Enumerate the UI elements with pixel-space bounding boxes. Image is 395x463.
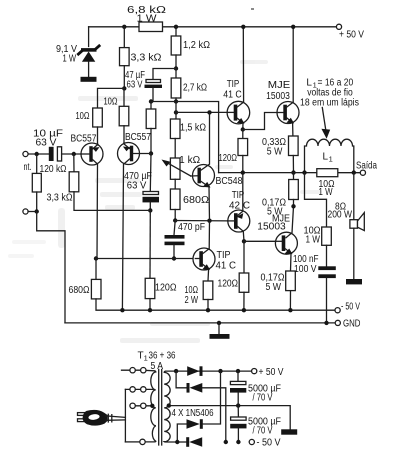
node 1,2k/2,7k junction <box>174 66 178 70</box>
svg-text:2 W: 2 W <box>185 295 199 306</box>
label TIP42C <box>229 190 250 212</box>
transistor Q3 BC548 <box>191 112 215 220</box>
label 10 ohm Q1 <box>76 111 90 122</box>
svg-text:1: 1 <box>329 154 333 163</box>
capacitor 47uF 63V <box>145 69 177 102</box>
label +50V top <box>339 30 364 41</box>
svg-text:15003: 15003 <box>257 221 286 232</box>
diode D1 <box>187 366 202 376</box>
label 100nF 100V <box>293 254 319 275</box>
svg-text:TIP: TIP <box>217 250 231 261</box>
wire GND rail <box>65 321 338 325</box>
transistor Q1 BC557 <box>81 143 103 259</box>
svg-text:18 em um lápis: 18 em um lápis <box>300 97 359 108</box>
wire mains bus <box>124 389 126 442</box>
resistor 1,5k <box>170 102 180 159</box>
resistor 1,2k <box>171 36 181 69</box>
wire zobel takeoff <box>305 173 327 227</box>
svg-text:120Ω: 120Ω <box>155 283 177 294</box>
transformer T1 core <box>159 370 162 446</box>
svg-text:63 V: 63 V <box>127 80 143 91</box>
svg-text:TIP: TIP <box>232 190 245 201</box>
label 120 ohm left <box>155 283 177 294</box>
resistor 2,7k <box>171 69 181 102</box>
primary tap row2 <box>125 387 154 392</box>
label 10 1W damper <box>319 179 335 198</box>
label 5000uF lower <box>248 416 281 436</box>
label 5000uF upper <box>248 383 281 403</box>
svg-text:5 W: 5 W <box>266 282 282 293</box>
label BC557 Q2 <box>125 132 151 143</box>
label 0,17 lower <box>261 273 285 293</box>
terminal -50V amp <box>335 308 340 313</box>
svg-text:+ 50 V: + 50 V <box>339 30 364 41</box>
resistor 680 upper <box>170 179 180 220</box>
wire D3 to +50 rail <box>203 371 221 424</box>
svg-text:100 V: 100 V <box>294 264 317 275</box>
svg-text:nt.: nt. <box>24 162 32 173</box>
svg-text:1 W: 1 W <box>137 14 158 25</box>
svg-text:15003: 15003 <box>266 91 290 102</box>
label 3,3k input <box>47 192 73 203</box>
wire -50 row <box>175 440 240 444</box>
label -50V amp <box>341 301 360 312</box>
transistor Q6 TIP42C driver bottom <box>228 173 250 242</box>
svg-text:TIP: TIP <box>227 79 240 90</box>
svg-text:1 W: 1 W <box>306 234 321 245</box>
label 1k <box>179 155 201 166</box>
label 0,17 upper <box>262 197 286 217</box>
wire A-node column <box>176 371 186 388</box>
resistor 3,3k upper <box>120 48 130 89</box>
label Ent <box>24 162 32 173</box>
label T1 36+36 <box>138 351 176 363</box>
svg-text:3,3 kΩ: 3,3 kΩ <box>47 192 73 203</box>
label 47uF 63V <box>125 70 145 91</box>
label 4x1N5406 <box>172 408 214 419</box>
svg-text:1,2 kΩ: 1,2 kΩ <box>183 40 210 51</box>
node 680/470pF junction <box>173 218 228 223</box>
stray mark top right <box>251 8 254 10</box>
svg-text:- 50 V: - 50 V <box>257 438 281 449</box>
wire top supply rail <box>89 26 339 28</box>
label TIP41C bottom <box>216 250 237 272</box>
wire output rail <box>219 170 363 174</box>
label 1,5k <box>180 122 206 133</box>
label 10 ohm Q2 <box>104 97 118 108</box>
resistor 0,17 5W lower <box>286 271 296 312</box>
transistor Q7 TIP41C output low driver <box>193 221 215 281</box>
svg-text:36 + 36: 36 + 36 <box>149 351 176 362</box>
label TIP41C top <box>223 79 242 101</box>
node emitters common <box>98 86 127 108</box>
resistor 120 driver top <box>238 130 248 173</box>
svg-text:680Ω: 680Ω <box>183 195 210 206</box>
label 10 2W <box>185 285 199 306</box>
capacitor 5000uF upper <box>230 371 246 406</box>
resistor 10 1W across L1 <box>317 169 338 177</box>
diode D4 <box>186 437 202 447</box>
svg-text:/ 70 V: / 70 V <box>253 425 273 436</box>
transistor Q4 TIP41C driver top <box>227 27 250 130</box>
wire secondary center tap rail <box>167 403 291 429</box>
node TIP41 collector rail <box>241 25 245 29</box>
svg-text:MJE: MJE <box>268 80 291 91</box>
label 10uF 63V <box>33 129 63 149</box>
svg-text:1 kΩ: 1 kΩ <box>179 155 201 166</box>
label 470uF 63V <box>124 171 152 192</box>
svg-text:L: L <box>323 151 329 162</box>
ground bar below speaker <box>346 279 362 284</box>
svg-text:+ 50 V: + 50 V <box>259 367 284 378</box>
svg-text:1: 1 <box>144 354 148 363</box>
node 470uF bottom <box>148 208 152 212</box>
resistor 6,8k 1W horizontal in rail <box>139 22 163 32</box>
svg-text:- 50 V: - 50 V <box>341 301 360 312</box>
label 470pF <box>178 222 205 233</box>
node rail to 1,2k <box>174 25 178 36</box>
svg-text:GND: GND <box>343 319 361 330</box>
terminal -50V PSU <box>249 439 254 444</box>
label BC548 <box>216 176 243 187</box>
transistor Q2 BC557 mirrored <box>118 143 152 311</box>
label Saida <box>356 160 377 171</box>
svg-text:63 V: 63 V <box>127 180 147 191</box>
resistor 10 1W zobel <box>322 227 332 266</box>
label +50V PSU <box>259 367 284 378</box>
label -50V PSU <box>257 438 281 449</box>
resistor 0,33 5W <box>289 136 299 173</box>
label 680 upper <box>183 195 210 206</box>
label 0,33 5W <box>262 137 286 157</box>
AC plug <box>78 410 126 426</box>
svg-text:63 V: 63 V <box>36 137 57 148</box>
svg-text:1,5 kΩ: 1,5 kΩ <box>180 122 206 133</box>
svg-text:/ 70 V: / 70 V <box>253 392 273 403</box>
transformer secondary winding <box>164 371 177 442</box>
annotation L1 text <box>300 78 359 109</box>
resistor 0,17 5W upper <box>289 170 299 208</box>
diode D3 <box>177 419 203 442</box>
resistor 10 ohm Q2 emitter <box>119 88 129 142</box>
svg-text:1 W: 1 W <box>319 187 333 198</box>
svg-text:BC557: BC557 <box>71 133 97 144</box>
svg-text:680Ω: 680Ω <box>69 285 90 296</box>
label 5A <box>151 361 164 372</box>
svg-text:2,7 kΩ: 2,7 kΩ <box>183 82 207 93</box>
resistor 120k input <box>32 154 41 212</box>
ground bar PSU <box>281 429 297 434</box>
terminal GND <box>335 320 340 325</box>
svg-text:5 W: 5 W <box>267 206 283 217</box>
inductor L1 <box>302 139 356 175</box>
svg-text:5 W: 5 W <box>267 146 283 157</box>
resistor 680 lower <box>91 259 337 311</box>
capacitor 5000uF lower <box>230 406 246 442</box>
label 2,7k <box>183 82 207 93</box>
svg-text:120Ω: 120Ω <box>218 279 239 290</box>
label 120 driver bottom <box>218 279 239 290</box>
wire speaker drop <box>353 173 355 220</box>
node MJE1 collector rail <box>291 25 295 29</box>
ground bar center stub <box>210 323 230 339</box>
zener diode D1 9,1V <box>77 45 100 77</box>
node -50 rail dots <box>120 308 246 312</box>
capacitor 10uF 63V input <box>49 147 81 161</box>
transformer primary winding <box>145 370 156 442</box>
svg-text:BC557: BC557 <box>125 132 151 143</box>
label MJE15003 top <box>266 80 290 102</box>
wire VAS base y112 <box>174 110 227 114</box>
label L1 <box>323 151 333 163</box>
svg-text:10Ω: 10Ω <box>76 111 90 122</box>
resistor 120 ohm to -50 <box>145 210 155 310</box>
wire feedback node horizontal <box>149 99 219 172</box>
svg-text:200 W: 200 W <box>328 210 353 221</box>
wire D2 to -50 rail <box>202 388 226 442</box>
svg-text:3,3 kΩ: 3,3 kΩ <box>131 53 163 64</box>
label 9,1V 1W <box>56 44 77 65</box>
terminal +50V PSU <box>252 369 257 374</box>
label MJE15003 bottom <box>257 213 290 232</box>
label BC557 Q1 <box>71 133 97 144</box>
label 120k <box>40 164 67 175</box>
svg-text:42 C: 42 C <box>229 201 250 212</box>
capacitor 100nF 100V zobel <box>318 266 336 323</box>
svg-text:120Ω: 120Ω <box>219 153 238 164</box>
node top rail / zener drop <box>88 27 90 47</box>
svg-text:4 X 1N5406: 4 X 1N5406 <box>172 408 214 419</box>
svg-text:1 W: 1 W <box>63 54 77 65</box>
label 6,8k <box>127 5 167 25</box>
resistor 3,3k input <box>69 154 150 210</box>
node rail to 3,3k <box>122 25 126 48</box>
resistor 10 2W <box>203 281 213 312</box>
node TIP42 collector / wire to MJE2 base <box>242 239 276 243</box>
svg-text:BC548: BC548 <box>216 176 243 187</box>
annotation arrow to L1 <box>321 108 330 139</box>
potentiometer 1k <box>162 158 191 179</box>
label 8ohm 200W <box>328 201 353 220</box>
wire PSU +50 rail <box>174 369 254 373</box>
resistor feedback to Q2 base <box>146 102 156 154</box>
capacitor 470pF <box>165 221 185 259</box>
ground bar below zener <box>81 77 97 82</box>
terminal +50V top <box>336 24 341 29</box>
label 1,2k <box>183 40 210 51</box>
svg-text:41 C: 41 C <box>216 261 237 272</box>
label 3,3k upper <box>131 53 163 64</box>
label 10 1W zobel <box>304 226 321 246</box>
resistor 10 ohm Q1 emitter <box>93 108 103 144</box>
resistor 120 driver bottom <box>239 241 249 310</box>
capacitor 470uF 63V <box>143 192 160 211</box>
wire shield to gnd rail <box>37 212 65 323</box>
wire VAS out y258 <box>94 256 196 260</box>
svg-text:Saída: Saída <box>356 160 377 171</box>
speaker 8ohm 200W <box>350 213 364 279</box>
transistor Q5 MJE15003 top <box>277 27 299 136</box>
svg-text:120 kΩ: 120 kΩ <box>40 164 67 175</box>
svg-text:470 pF: 470 pF <box>178 222 205 233</box>
svg-text:41 C: 41 C <box>223 90 242 101</box>
faint scan bleed-through smudges (decorative) <box>8 60 322 343</box>
primary bottom tap <box>125 439 145 444</box>
label 120 driver top <box>219 153 238 164</box>
terminal Saida <box>360 170 365 175</box>
primary tap row3 <box>130 403 155 408</box>
svg-text:10Ω: 10Ω <box>104 97 118 108</box>
transistor Q8 MJE15003 bottom <box>275 206 297 271</box>
label GND <box>343 319 361 330</box>
node TIP41 emitter / wire to MJE1 base <box>241 113 277 132</box>
node Q2 base <box>149 151 153 191</box>
primary tap row1 <box>122 368 147 373</box>
label 680 lower <box>69 285 90 296</box>
terminal input shield <box>23 209 39 214</box>
terminal input signal <box>23 151 49 156</box>
diode D2 <box>187 383 203 393</box>
